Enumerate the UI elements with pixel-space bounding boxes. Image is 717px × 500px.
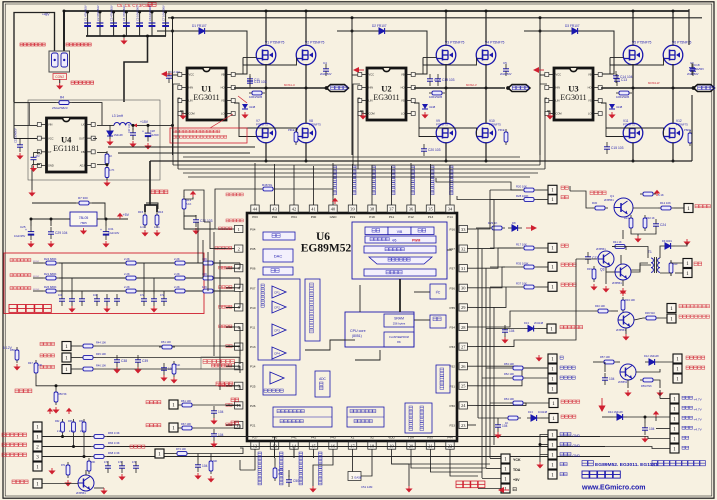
svg-text:R40 10K: R40 10K (595, 304, 605, 308)
wire pin 20 down (410, 449, 412, 458)
resistor handlebar row 0 (80, 345, 96, 347)
power +5V out (117, 213, 123, 219)
capacitor C24 (653, 224, 659, 226)
svg-text:2: 2 (238, 246, 240, 251)
red label meter bottom (12, 480, 28, 484)
resistor R75 (274, 465, 276, 481)
svg-text:P13: P13 (250, 345, 256, 349)
svg-text:LIN: LIN (189, 99, 193, 103)
svg-text:VCC: VCC (556, 73, 562, 77)
svg-text:4/6: 4/6 (392, 239, 397, 243)
svg-text:P04: P04 (250, 228, 256, 232)
mosfet V10 low (476, 123, 496, 143)
svg-text:1: 1 (552, 401, 555, 407)
resistor R66 3.3K (91, 446, 107, 448)
resistor shunt R16 1mR (156, 212, 158, 228)
wire Q5 area (42, 483, 78, 485)
svg-text:P21: P21 (250, 424, 256, 428)
wire pin 1 left stub (226, 228, 235, 230)
ground C28 (144, 143, 151, 150)
svg-text:472: 472 (140, 294, 145, 297)
block CPU core (345, 312, 414, 347)
svg-text:LO: LO (588, 112, 591, 116)
ground sensorless caps (68, 306, 75, 313)
ground C42 (494, 432, 501, 439)
svg-text:2N5551: 2N5551 (618, 380, 628, 384)
wire left rows to pins 2 (226, 327, 240, 355)
svg-text:P75NF75: P75NF75 (676, 122, 688, 126)
svg-text:VS: VS (588, 99, 592, 103)
svg-text:(8051): (8051) (352, 334, 362, 338)
label vertical PWM signal 2 (372, 166, 376, 195)
wire gate low pair (234, 103, 257, 137)
wire +5V distribution 2 (118, 152, 250, 154)
wire low side sources to gnd rail (632, 143, 634, 161)
block I2C (430, 284, 446, 299)
block watchdog (436, 365, 450, 393)
svg-text:R47: R47 (28, 361, 33, 365)
svg-text:R41 1K: R41 1K (613, 240, 622, 244)
electrolytic capacitor C7 (165, 12, 167, 36)
resistor divider 10K row 1 (200, 277, 216, 279)
zener D5 (422, 104, 428, 109)
svg-text:FLASH/EEPROM: FLASH/EEPROM (389, 336, 409, 339)
block FLASH EEPROM (384, 332, 414, 347)
wire programmer stack (490, 458, 501, 460)
svg-text:R59 PN6: R59 PN6 (641, 384, 652, 388)
red label low speed (231, 421, 239, 425)
resistor R28 row (521, 199, 537, 201)
svg-text:R29 1K: R29 1K (488, 221, 497, 225)
svg-text:1: 1 (65, 367, 68, 373)
title company name (582, 471, 620, 478)
resistor R30 (592, 207, 608, 209)
svg-text:EG3011: EG3011 (373, 93, 399, 102)
svg-text:LIN: LIN (369, 99, 373, 103)
wire pin 16 down (332, 449, 334, 458)
svg-text:P6KE: P6KE (288, 128, 295, 132)
svg-text:2N5551: 2N5551 (604, 198, 614, 202)
svg-text:104: 104 (502, 424, 508, 428)
svg-text:1: 1 (551, 462, 554, 468)
svg-text:C31: C31 (108, 227, 114, 231)
svg-text:+15V: +15V (140, 120, 149, 124)
wire U4 left rail (13, 102, 15, 139)
pin 24 right (459, 402, 467, 409)
resistor interface row 0 (179, 404, 195, 406)
wire Q2 Q3 links (576, 258, 597, 260)
capacitor phase C5 (503, 69, 509, 71)
svg-text:R34 10K: R34 10K (625, 298, 635, 302)
red arrow programmer (498, 487, 509, 493)
connector meter bottom (33, 479, 42, 488)
svg-text:R19: R19 (673, 263, 678, 266)
wire source to phase rail (632, 64, 634, 122)
mosfet V4 (476, 45, 496, 65)
pin 12 bottom (251, 442, 259, 449)
connector high speed (155, 449, 164, 458)
svg-text:D2 FR107: D2 FR107 (372, 24, 387, 28)
svg-text:C51 12M: C51 12M (361, 485, 373, 489)
svg-text:42: 42 (292, 207, 296, 212)
wire bottom pin drops (240, 458, 255, 470)
svg-text:10u/50V: 10u/50V (150, 134, 159, 137)
capacitor C56 (502, 330, 508, 332)
wire pin 41 up (313, 196, 315, 205)
red label row 287 (561, 283, 576, 286)
capacitor C48 (195, 465, 201, 467)
svg-text:VCC: VCC (189, 73, 195, 77)
connector cruise set (547, 324, 556, 333)
svg-text:+5V: +5V (513, 478, 520, 482)
wire driver IN drops U1 (173, 84, 180, 165)
red label handlebar row 1 (40, 354, 55, 357)
svg-text:D9 4001: D9 4001 (662, 239, 672, 243)
svg-text:+4.7V: +4.7V (694, 408, 703, 412)
chip U4 EG1181 (47, 118, 87, 172)
wire horn transformer (660, 246, 661, 258)
connector level A (667, 304, 676, 313)
resistor R17 row (521, 247, 537, 249)
wire +15V rail (131, 124, 155, 126)
svg-text:R46 10K: R46 10K (96, 364, 106, 368)
svg-text:P05: P05 (250, 247, 256, 251)
wire brake stack feeds (540, 435, 548, 455)
svg-text:1: 1 (673, 436, 676, 442)
resistor R41 (612, 246, 628, 248)
resistor shunt R15 1mR (144, 212, 146, 228)
ground C27 (129, 141, 136, 148)
resistor R53 (510, 367, 526, 369)
capacitor phase C6 (690, 69, 696, 71)
resistor R12 10K (658, 207, 674, 209)
red arrow C12 (161, 71, 172, 77)
resistor R27 5.1K (640, 193, 656, 195)
power arrow meter (654, 190, 660, 196)
ground zener D6 (608, 112, 615, 119)
svg-text:VS: VS (401, 99, 405, 103)
svg-text:CP1: CP1 (274, 290, 280, 294)
svg-text:4.7K: 4.7K (109, 168, 115, 172)
thermistor R50 (55, 389, 57, 405)
svg-text:R45 10K: R45 10K (96, 352, 106, 356)
diode D7 catch (107, 131, 113, 136)
resistor divider 2.2K b row 0 (172, 262, 188, 264)
resistor R56 (16, 347, 18, 363)
red arrow down mid (598, 398, 605, 412)
resistor R51 (159, 346, 175, 348)
wire self learn (490, 402, 510, 404)
block serial (263, 232, 295, 240)
red label left pin 1 (219, 227, 232, 230)
svg-text:R32 1K: R32 1K (646, 216, 655, 220)
red label hall U (2, 433, 27, 437)
blue label display rows (560, 356, 563, 359)
svg-text:78L05: 78L05 (79, 216, 89, 220)
capacitor phase C4 (323, 69, 329, 71)
resistor R63 2.2K (73, 419, 75, 435)
wire row 287 (490, 286, 521, 288)
svg-text:1: 1 (670, 316, 673, 322)
svg-text:1: 1 (686, 261, 689, 267)
pin 37 top (387, 205, 395, 212)
connector cruise stack (673, 354, 682, 363)
capacitor C13 U block (247, 81, 253, 83)
red label left pin 8 (211, 364, 231, 367)
pin 5 left (235, 304, 243, 311)
svg-text:R31: R31 (624, 216, 629, 220)
svg-text:1N4148: 1N4148 (114, 133, 124, 137)
wire battery positive drop (63, 11, 65, 51)
svg-text:C24: C24 (660, 223, 666, 227)
electrolytic capacitor C4 (125, 12, 127, 36)
diode D2 FR107 (375, 30, 389, 32)
svg-text:VCC: VCC (48, 136, 54, 140)
block timer2 (364, 269, 436, 276)
svg-text:C5. C6. C7 3/CBB: C5. C6. C7 3/CBB (117, 3, 151, 8)
label vertical hall signal 1 (280, 452, 284, 485)
svg-text:472: 472 (160, 294, 165, 297)
svg-text:MOS2-V: MOS2-V (466, 83, 477, 87)
wire handlebar row 2 (71, 368, 80, 370)
diode D12 (645, 361, 659, 363)
wire row 248 (490, 247, 521, 249)
pin 32 right (459, 245, 467, 252)
red label left pin 11 (226, 423, 232, 426)
wire pin 35 up (430, 196, 432, 205)
svg-text:EA58: EA58 (355, 475, 362, 479)
capacitor C29 (48, 232, 54, 234)
capacitor C22 (17, 145, 23, 147)
ground C48 (194, 473, 201, 480)
svg-text:2.2K: 2.2K (174, 257, 180, 261)
resistor divider 2.2K row 2 (123, 290, 139, 292)
ground crystal X (309, 486, 316, 493)
svg-text:1: 1 (676, 376, 679, 382)
pin 30 right (459, 284, 467, 291)
ground interface caps (210, 418, 217, 425)
capacitor C12 (166, 76, 172, 78)
svg-text:P35: P35 (449, 306, 455, 310)
svg-text:1: 1 (551, 452, 554, 458)
pin 44 top (251, 205, 259, 212)
wire hall rows (42, 436, 91, 438)
label vertical hall signal 0 (258, 452, 262, 485)
red label from motor phase 2 (10, 287, 31, 290)
block programmable opamp (263, 365, 296, 395)
svg-text:1: 1 (676, 356, 679, 362)
pin 3 left (235, 265, 243, 272)
connector level B (667, 314, 676, 323)
pin 16 bottom (329, 442, 337, 449)
red label left pin 10 (226, 403, 232, 406)
mosfet V11 low (623, 123, 643, 143)
resistor R29 (489, 227, 505, 229)
section red box sensorless detection (4, 253, 204, 314)
svg-text:2N20/50V: 2N20/50V (500, 72, 512, 76)
svg-text:2N20/50V: 2N20/50V (320, 72, 332, 76)
wire PWM harness horizontals (173, 164, 540, 166)
wire crystal (352, 458, 354, 472)
wire left long vertical 2 (204, 222, 226, 249)
wire gate high pair (414, 87, 419, 89)
svg-text:R64: R64 (79, 420, 84, 423)
svg-text:1: 1 (172, 402, 175, 408)
wire right bus drop (688, 9, 690, 45)
svg-text:R20 10K: R20 10K (516, 184, 527, 188)
svg-text:472: 472 (104, 461, 109, 464)
pin 35 top (426, 205, 434, 212)
wire gate high pair (234, 87, 239, 89)
capacitor bootstrap C12 (427, 79, 433, 81)
wire VCC cap (19, 139, 21, 141)
wire inner bus 1 (399, 279, 401, 312)
pin 42 top (290, 205, 298, 212)
wire pin 13 down (274, 449, 276, 458)
svg-text:CP2: CP2 (274, 305, 280, 309)
svg-text:1: 1 (36, 424, 39, 430)
svg-text:1: 1 (36, 464, 39, 470)
wire left rail drop (14, 13, 55, 103)
connector handlebar row 0 (62, 342, 71, 351)
connector self learn (549, 399, 558, 408)
title line chips (582, 461, 593, 466)
blue label brake gnd rows (560, 433, 571, 436)
svg-text:2.2K: 2.2K (80, 430, 85, 433)
svg-text:EG89M52: EG89M52 (301, 243, 352, 255)
zener D6 (609, 104, 615, 109)
ground brake stack (539, 455, 541, 463)
capacitor bootstrap C13 (614, 79, 620, 81)
svg-text:R37 10K: R37 10K (516, 281, 527, 285)
red label cruise A (686, 356, 705, 359)
svg-text:R73 10K: R73 10K (176, 447, 186, 451)
svg-text:1: 1 (551, 386, 554, 392)
wire pin 8 left stub (226, 365, 235, 367)
wire interface row 1 (178, 427, 179, 429)
wire phase sense row 0 (33, 262, 43, 264)
svg-text:MOS3-W: MOS3-W (648, 81, 660, 85)
svg-text:P6KE: P6KE (498, 128, 505, 132)
svg-text:32: 32 (461, 246, 465, 251)
red label power wire red (20, 43, 45, 46)
zener D4 (242, 104, 248, 109)
svg-text:1: 1 (676, 366, 679, 372)
wire regulator output +5V (97, 218, 128, 220)
label vertical PWM signal 3 (392, 166, 396, 195)
svg-text:+4.7V: +4.7V (694, 428, 703, 432)
connector horn 2 (683, 269, 692, 278)
red label hall V (2, 443, 27, 447)
label vertical PWM signal 1 (353, 166, 357, 195)
svg-text:R12 10K: R12 10K (660, 201, 671, 205)
pin 7 left (235, 343, 243, 350)
ground battery negative (56, 83, 63, 90)
capacitor C43 (211, 411, 217, 413)
wire gate low pair (601, 103, 624, 137)
resistor R19 horn (670, 260, 672, 276)
svg-text:R28 100K: R28 100K (516, 194, 529, 198)
svg-text:OUT: OUT (79, 136, 85, 140)
red label reverse meter (590, 191, 606, 195)
svg-text:GND: GND (330, 215, 338, 219)
svg-text:HO: HO (588, 86, 592, 90)
mosfet V1 (256, 45, 276, 65)
red arrow VB (353, 67, 364, 73)
svg-text:51K: 51K (176, 364, 181, 367)
svg-text:GND: GND (573, 434, 581, 438)
resistor R57 (601, 361, 617, 363)
svg-text:VCC: VCC (369, 73, 375, 77)
wire source to phase rail (445, 64, 447, 122)
wire driver supply U2 (352, 74, 360, 76)
red label from motor phase 0 (10, 259, 31, 262)
wire cap bank bottom rail (86, 35, 166, 37)
label vertical PWM signal 4 (411, 166, 415, 195)
ground Q2 Q3 (602, 286, 609, 293)
wire pin 9 left stub (226, 385, 235, 387)
pin 10 left (235, 402, 243, 409)
capacitor C69 (133, 466, 139, 468)
svg-text:P17: P17 (449, 247, 455, 251)
svg-text:10K: 10K (38, 364, 43, 367)
mosfet V3 (436, 45, 456, 65)
resistor P6KE V phase (505, 129, 507, 145)
mosfet V9 low (436, 123, 456, 143)
wire connector to ground (59, 80, 61, 84)
pin 40 top (329, 205, 337, 212)
resistor divider 2.2K row 1 (123, 277, 139, 279)
red label drive V (226, 219, 243, 222)
svg-text:HO: HO (401, 86, 405, 90)
wire OUT pin (93, 138, 97, 140)
svg-text:1: 1 (504, 486, 507, 492)
chip U1 EG3011 (187, 68, 226, 120)
svg-text:R26 680K: R26 680K (44, 285, 57, 289)
ground U2 COM (359, 113, 366, 120)
resistor interface row 1 (179, 427, 195, 429)
svg-text:30K: 30K (213, 460, 218, 463)
svg-text:MOS1-U: MOS1-U (284, 83, 295, 87)
resistor R24 680K (43, 262, 59, 264)
svg-text:VS: VS (221, 99, 225, 103)
svg-text:10R/2W05: 10R/2W05 (616, 95, 630, 99)
wire pin 12 down (254, 449, 256, 458)
wire driver IN drops U3 (540, 84, 547, 165)
chip U6 EG89M52 body (247, 213, 457, 441)
svg-text:75K: 75K (278, 472, 283, 476)
svg-text:R57 10K: R57 10K (600, 355, 610, 359)
wire pin 21 down (430, 449, 432, 458)
wire pin 4 left stub (226, 287, 235, 289)
ground thermistor (52, 407, 59, 414)
svg-text:P34: P34 (449, 326, 455, 330)
wire right vertical bundle (477, 229, 479, 418)
svg-text:Q3: Q3 (600, 268, 605, 272)
resistor R26 680K (43, 290, 59, 292)
ground zener D5 (421, 112, 428, 119)
pin 25 right (459, 382, 467, 389)
ground left rail (31, 165, 33, 190)
wire R13 C30 node (184, 212, 196, 216)
svg-text:1: 1 (550, 326, 553, 332)
pin 28 right (459, 323, 467, 330)
resistor R48 (260, 188, 276, 190)
red label reverse interface (561, 415, 576, 418)
pin 22 bottom (446, 442, 454, 449)
svg-text:10R/2W05: 10R/2W05 (429, 95, 443, 99)
wire pin 17 down (352, 449, 354, 458)
